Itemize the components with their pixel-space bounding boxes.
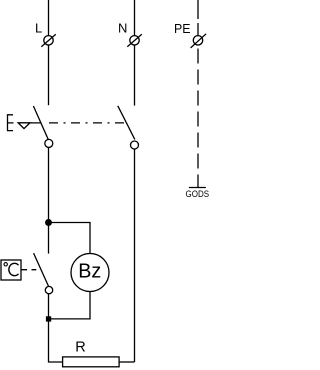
thermostat link dashed — [21, 269, 36, 271]
wire L feeder top — [48, 0, 50, 36]
actuator E symbol — [8, 115, 14, 131]
switch S1 pole a blade — [33, 106, 48, 140]
earth bar GODS — [189, 187, 206, 189]
terminal L — [41, 34, 56, 47]
junction node B — [46, 316, 51, 321]
switch S1 pole a contact — [45, 139, 53, 147]
svg-text:N: N — [118, 21, 127, 36]
thermostat degree mark — [4, 263, 7, 266]
buzzer Bz — [71, 254, 109, 292]
wire buzzer to junction B — [49, 292, 91, 319]
terminal PE — [191, 34, 207, 48]
terminal N — [127, 34, 142, 47]
wire PE down dashed — [197, 49, 199, 188]
svg-text:GODS: GODS — [186, 189, 210, 199]
resistor R — [63, 357, 120, 367]
thermostat C glyph — [9, 263, 19, 275]
wire N feeder to switch pole b — [134, 45, 136, 106]
thermostat box — [1, 260, 21, 280]
wire junction A to buzzer branch — [49, 223, 91, 254]
wire contact to bottom rail — [49, 294, 63, 362]
wire bottom rail right — [119, 361, 134, 363]
wire L feeder to switch pole a — [48, 45, 50, 105]
svg-text:L: L — [35, 21, 42, 36]
wire PE feeder dashed — [197, 0, 199, 36]
mechanical link dash-dot — [49, 122, 127, 124]
wire L contact down to thermostat blade — [48, 147, 50, 253]
wire N down to bottom rail — [134, 149, 136, 362]
actuator triangle — [18, 123, 30, 129]
wire N feeder top — [134, 0, 136, 36]
thermostat contact circle — [45, 286, 52, 293]
switch S1 pole b contact — [131, 141, 139, 149]
thermostat contact blade — [34, 253, 49, 286]
svg-text:R: R — [75, 340, 85, 356]
svg-text:PE: PE — [174, 21, 191, 36]
actuator link solid with triangle — [18, 122, 42, 124]
svg-text:Bz: Bz — [78, 259, 101, 282]
switch S1 pole b blade — [118, 106, 135, 140]
junction node A — [46, 220, 52, 226]
